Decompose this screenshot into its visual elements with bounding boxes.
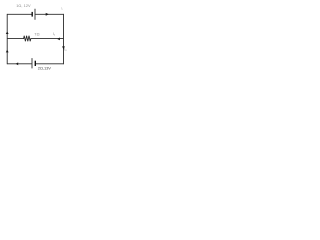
- svg-text:I₂: I₂: [53, 32, 56, 36]
- svg-text:I₃: I₃: [64, 47, 67, 51]
- svg-text:2Ω,13V: 2Ω,13V: [38, 66, 51, 71]
- svg-text:1Ω, 12V: 1Ω, 12V: [16, 3, 31, 8]
- svg-text:7Ω: 7Ω: [34, 31, 40, 36]
- svg-text:I₁: I₁: [61, 7, 63, 11]
